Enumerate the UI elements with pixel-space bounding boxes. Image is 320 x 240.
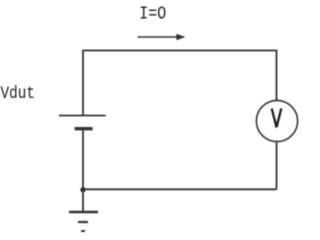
svg-text:Vdut: Vdut bbox=[1, 84, 36, 104]
svg-text:I=O: I=O bbox=[139, 5, 166, 25]
